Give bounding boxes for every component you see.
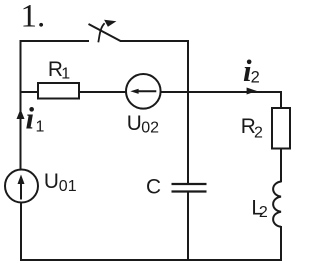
resistor R2 [272, 108, 290, 149]
capacitor C [172, 184, 207, 192]
wire L2 to bottom rail [280, 226, 282, 261]
current arrow i2 [247, 88, 257, 95]
wire bottom rail [20, 259, 282, 261]
wire U02 to right rail [161, 91, 281, 93]
label L2 [251, 197, 268, 222]
label 1. [21, 0, 46, 35]
label R2 [241, 115, 263, 142]
wire right rail upper [280, 91, 282, 108]
svg-text:2: 2 [259, 204, 268, 221]
wire left-rail to R1 [20, 91, 39, 93]
label C [146, 175, 161, 198]
label i2 [243, 53, 260, 88]
svg-text:02: 02 [141, 120, 159, 137]
label R1 [48, 58, 70, 82]
resistor R1 [38, 83, 79, 99]
svg-text:1: 1 [36, 119, 45, 136]
switch blade [89, 24, 121, 41]
svg-text:2: 2 [254, 125, 263, 142]
source U02 [126, 74, 161, 109]
current arrow i1 [17, 109, 25, 119]
wire top-left segment [20, 40, 90, 42]
svg-text:U: U [44, 170, 59, 193]
svg-text:01: 01 [59, 178, 77, 195]
switch actuation arrow [98, 20, 116, 43]
wire left rail lower [20, 202, 22, 261]
label U01 [44, 170, 77, 195]
svg-text:2: 2 [251, 69, 260, 87]
middle rail upper [187, 40, 189, 183]
middle rail lower [187, 193, 189, 262]
inductor L2 [273, 182, 281, 227]
source U01 [5, 170, 38, 203]
wire left rail upper [20, 40, 22, 170]
svg-text:U: U [127, 112, 142, 135]
svg-text:1: 1 [61, 65, 70, 82]
wire R2 to L2 [280, 149, 282, 183]
svg-text:i: i [26, 101, 35, 136]
label U02 [127, 112, 159, 137]
wire R1 to U02 [79, 91, 126, 93]
wire top-right segment [120, 40, 189, 42]
svg-text:C: C [146, 175, 161, 198]
label i1 [26, 101, 45, 136]
svg-text:1.: 1. [21, 0, 46, 35]
